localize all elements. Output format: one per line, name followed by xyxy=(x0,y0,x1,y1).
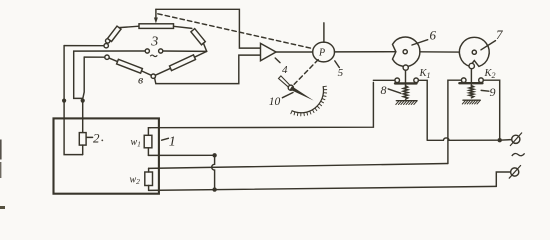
heater winding W1 xyxy=(144,135,152,148)
shaft wire cam6 to cam7 xyxy=(420,51,472,53)
bridge wire to upper-left node xyxy=(64,45,104,47)
spring 9 xyxy=(469,86,474,98)
contact points K2 xyxy=(461,78,466,83)
reversible motor 5 xyxy=(313,42,335,62)
svg-text:w2: w2 xyxy=(130,175,141,187)
svg-text:7: 7 xyxy=(496,27,503,42)
K1 right wire to supply junction with hop over K2 wire xyxy=(427,138,497,140)
bridge middle wire right xyxy=(163,50,207,52)
middle contact circles of vibrator 3 xyxy=(145,49,149,53)
svg-text:6: 6 xyxy=(430,28,437,43)
label 6 leader xyxy=(412,40,428,45)
motor output wire to cam 6 xyxy=(335,51,404,53)
bridge bottom node xyxy=(151,74,155,78)
bridge arm resistor top-right xyxy=(174,26,192,28)
svg-text:K2: K2 xyxy=(484,68,496,80)
bridge middle wire left xyxy=(74,50,145,52)
bottom node wire to amplifier xyxy=(155,55,261,84)
K1 right contact wire xyxy=(418,80,427,140)
K2 left contact wire down to wire C xyxy=(448,80,462,163)
svg-text:3: 3 xyxy=(150,34,158,49)
label 1 leader xyxy=(162,138,169,140)
sensor resistor 2 xyxy=(79,133,86,146)
junction dot left xyxy=(62,99,66,103)
contact bar K2 xyxy=(459,82,482,84)
label 10 leader xyxy=(282,93,293,98)
cam disc 7 (notch bottom) xyxy=(459,37,489,66)
ground anchor under spring 9 xyxy=(463,99,480,101)
mechanical link wiper-motor (dashed) xyxy=(158,14,313,49)
pointer needle xyxy=(290,86,314,100)
svg-text:4: 4 xyxy=(282,64,288,76)
scan artifact left edge xyxy=(0,140,2,160)
svg-text:2: 2 xyxy=(93,130,100,145)
contact points K1 xyxy=(395,78,400,83)
bridge arm resistor bottom-right xyxy=(155,68,170,75)
cam follower roller 6 xyxy=(403,65,408,70)
AC supply tilde xyxy=(512,153,525,156)
K2 right contact wire to supply xyxy=(483,80,499,140)
wire from bridge lower-left node down to thermometer 2 xyxy=(83,57,85,133)
motor top stub xyxy=(323,23,325,42)
slidewire wiper arrow xyxy=(155,9,157,19)
upper-left node terminals xyxy=(104,44,108,48)
svg-text:в: в xyxy=(138,73,143,87)
vertical junction wire with hop over C xyxy=(212,155,215,189)
svg-text:10: 10 xyxy=(269,96,281,108)
svg-text:5: 5 xyxy=(338,67,344,79)
svg-text:w1: w1 xyxy=(131,137,141,149)
cam follower roller 7 xyxy=(469,63,474,68)
wiper output wire over the top xyxy=(156,9,261,48)
cam disc 6 (notch left) xyxy=(393,37,420,66)
wire A: W1 top to contact K1 left xyxy=(150,83,373,128)
speck after label 2 xyxy=(101,140,103,142)
svg-text:9: 9 xyxy=(490,85,496,99)
svg-text:P: P xyxy=(318,48,325,59)
bridge arm resistor bottom-left xyxy=(109,58,117,62)
svg-text:1: 1 xyxy=(169,135,176,150)
junction dot right xyxy=(81,99,85,103)
heater winding W2 xyxy=(145,172,153,186)
supply terminal upper xyxy=(500,139,512,142)
wire D: W2 bottom to supply terminal xyxy=(149,186,497,190)
scale arc xyxy=(292,87,323,113)
wire from bridge upper-left node down to box xyxy=(64,46,82,155)
label 8 leader xyxy=(388,89,401,93)
bridge arm resistor top-left xyxy=(108,26,122,41)
pointer tail flag xyxy=(279,76,290,87)
supply terminal lower xyxy=(511,168,519,176)
svg-text:K1: K1 xyxy=(419,68,431,80)
spring 8 xyxy=(403,86,408,100)
vibrator tilde xyxy=(150,55,157,57)
label 2 leader xyxy=(87,136,93,138)
pointer pivot xyxy=(288,85,293,90)
furnace box xyxy=(54,118,159,193)
wire from bridge middle row down xyxy=(74,51,83,100)
slidewire (rheochord) xyxy=(139,24,174,29)
wire C: W2 top to contact K2 left, with crossover xyxy=(149,164,448,169)
ground anchor under spring 8 xyxy=(396,100,417,102)
amplifier 4 xyxy=(261,43,277,60)
label 4 leader xyxy=(275,58,280,63)
wire B: W1 bottom to junction xyxy=(148,154,214,156)
contact bar K1 xyxy=(395,82,417,84)
label 7 leader xyxy=(481,41,496,50)
mechanical link motor-pointer (dashed) xyxy=(294,60,318,85)
bridge wire to lower-left node xyxy=(84,56,105,58)
scan artifact bottom-left corner xyxy=(0,206,5,209)
label 5 leader xyxy=(335,61,340,68)
amplifier output wire xyxy=(276,51,313,53)
label 9 leader xyxy=(481,89,489,92)
scale tick marks xyxy=(291,86,327,116)
K1 left contact wire xyxy=(373,79,395,81)
svg-text:8: 8 xyxy=(381,83,387,97)
